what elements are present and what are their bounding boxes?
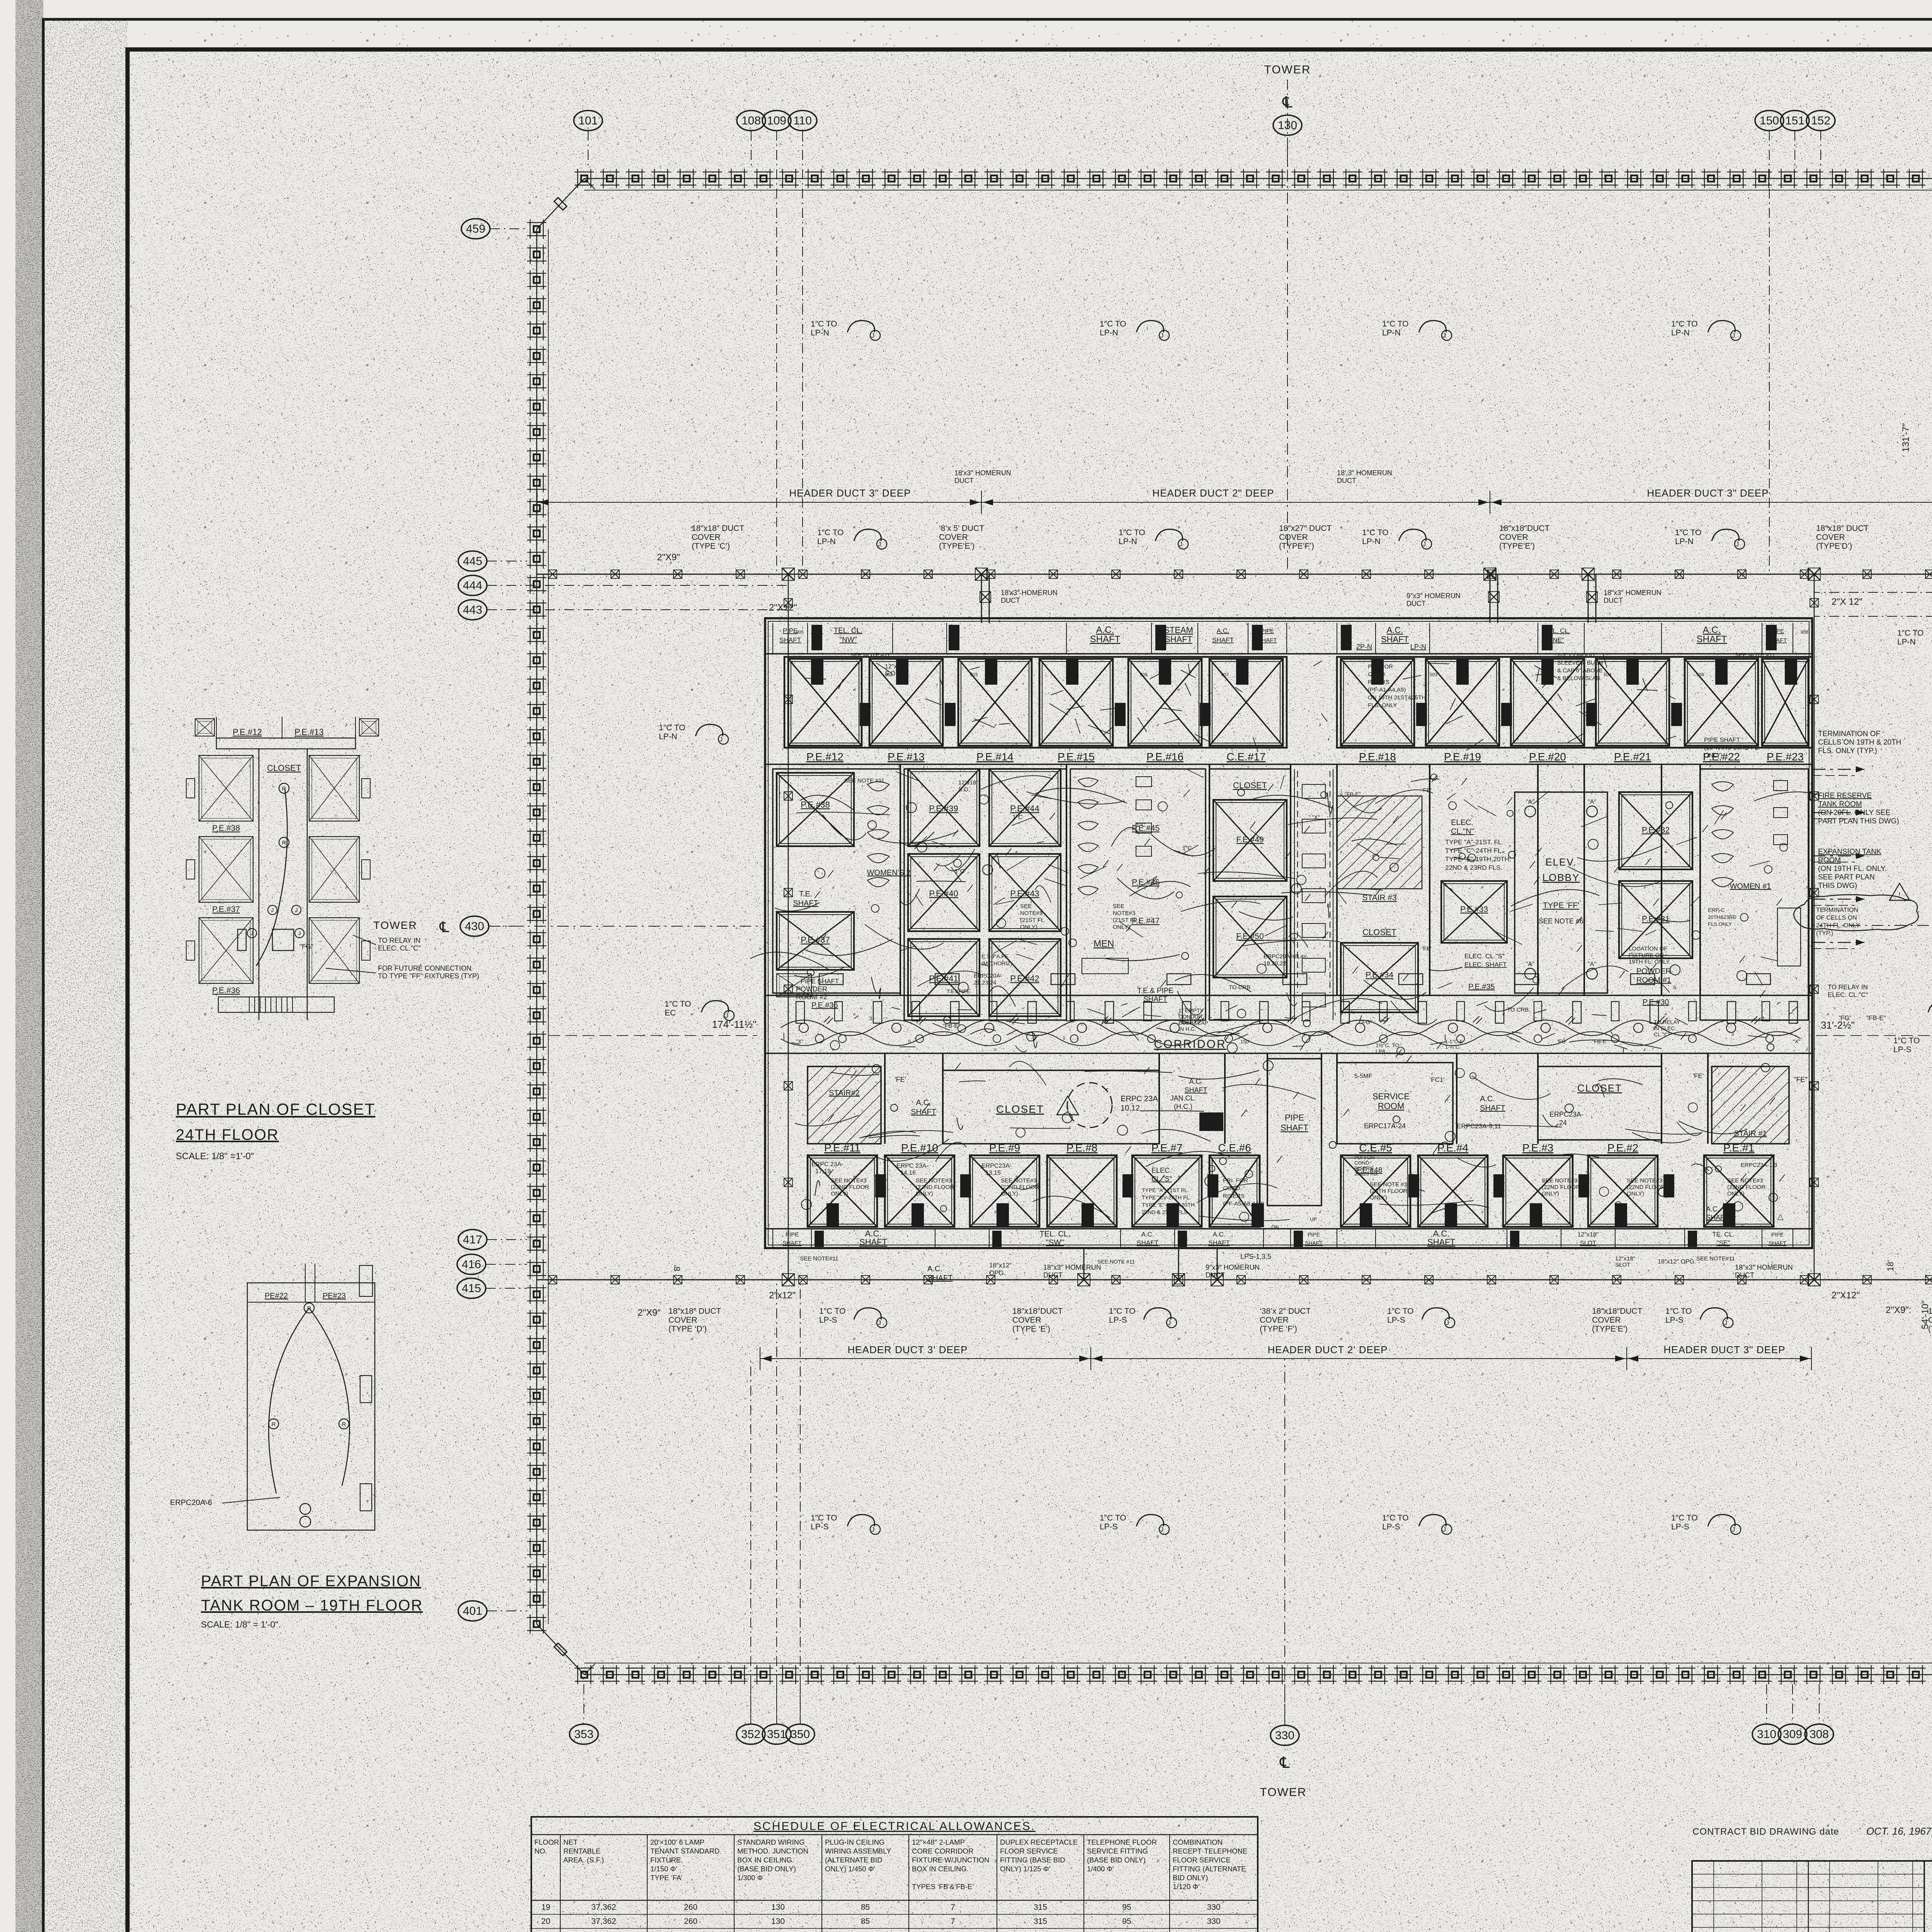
svg-text:P.E.#39: P.E.#39 (929, 804, 958, 813)
svg-text:F.E.#50: F.E.#50 (1236, 932, 1264, 941)
svg-text:151: 151 (1785, 114, 1804, 127)
corridor conduit runs (781, 1020, 1801, 1036)
svg-text:SLOT: SLOT (1580, 1240, 1596, 1247)
svg-text:310: 310 (1757, 1728, 1776, 1741)
svg-text:FLS. ONLY (TYP.): FLS. ONLY (TYP.) (1818, 747, 1877, 755)
svg-text:SEE NOTE#3: SEE NOTE#3 (1001, 1177, 1037, 1184)
svg-text:37,362: 37,362 (591, 1903, 616, 1912)
extra door bucks row1 (811, 659, 823, 684)
grid bubble 443 (458, 600, 487, 620)
svg-text:T.E.: T.E. (799, 890, 812, 898)
building perimeter walls (584, 178, 1932, 179)
svg-text:P.E.#7: P.E.#7 (1151, 1142, 1182, 1154)
svg-text:RENTABLE: RENTABLE (563, 1847, 600, 1855)
svg-text:PIPE: PIPE (1261, 628, 1274, 634)
extra arcs layer2 (959, 1081, 986, 1082)
hooks bottom band (854, 1308, 881, 1320)
svg-text:"FG": "FG" (299, 943, 313, 950)
svg-text:FITTING (ALTERNATE: FITTING (ALTERNATE (1173, 1865, 1246, 1873)
svg-text:353: 353 (574, 1728, 594, 1741)
svg-text:BOX IN CEILING.: BOX IN CEILING. (912, 1865, 969, 1873)
elevator cell P.E.#15 (1039, 659, 1113, 746)
svg-text:131'-7″: 131'-7″ (1901, 423, 1911, 452)
svg-text:SEE NOTE#3: SEE NOTE#3 (1542, 1177, 1578, 1184)
svg-text:85: 85 (861, 1917, 870, 1926)
svg-text:(22ND FLOOR: (22ND FLOOR (1001, 1184, 1039, 1190)
svg-text:TOWER: TOWER (1264, 63, 1311, 76)
svg-text:STANDARD WIRING: STANDARD WIRING (737, 1838, 804, 1846)
svg-text:18′x3″ HOMERUN: 18′x3″ HOMERUN (1001, 589, 1058, 597)
svg-text:18″x18″ DUCT: 18″x18″ DUCT (692, 524, 744, 533)
svg-text:P.E.#14: P.E.#14 (976, 751, 1014, 763)
svg-text:101: 101 (578, 114, 598, 127)
center slot dashed lines (1297, 771, 1298, 993)
svg-text:HEADER DUCT 2" DEEP: HEADER DUCT 2" DEEP (1152, 487, 1274, 499)
elevator cell P.E.#10 (885, 1155, 954, 1227)
svg-text:18″x12″ OPG.: 18″x12″ OPG. (1658, 1259, 1696, 1265)
svg-text:19: 19 (541, 1903, 550, 1912)
cell P.E.#41 (908, 939, 980, 1016)
svg-text:150′: 150′ (1240, 1039, 1250, 1044)
svg-text:1″C TO: 1″C TO (811, 320, 837, 328)
svg-text:(20TH FLOOR: (20TH FLOOR (1370, 1188, 1408, 1194)
svg-text:TO RELAY IN: TO RELAY IN (1828, 983, 1868, 991)
svg-text:J: J (298, 930, 301, 936)
svg-text:OPG.: OPG. (989, 1269, 1006, 1277)
svg-text:TYPE "C"-24TH FL.: TYPE "C"-24TH FL. (1445, 847, 1503, 854)
svg-text:ELEV.: ELEV. (1545, 856, 1577, 868)
svg-text:DUCT: DUCT (1001, 597, 1020, 604)
svg-text:330: 330 (1207, 1917, 1220, 1926)
svg-text:HEADER DUCT 2' DEEP: HEADER DUCT 2' DEEP (1268, 1344, 1388, 1355)
svg-text:22ND & 23RD FLS.: 22ND & 23RD FLS. (1142, 1209, 1189, 1215)
svg-text:P.E.#36: P.E.#36 (212, 986, 240, 995)
svg-text:BOX IN CEILING.: BOX IN CEILING. (737, 1856, 794, 1864)
svg-text:LP-S: LP-S (1671, 1522, 1689, 1531)
svg-text:(TYPE’E’): (TYPE’E’) (1499, 542, 1535, 551)
svg-text:CONDUIT: CONDUIT (1179, 1014, 1203, 1020)
elevator cell P.E.#16 (1128, 659, 1202, 746)
svg-text:OF CELLS ON: OF CELLS ON (1816, 915, 1857, 921)
svg-text:TELEPHONE FLOOR: TELEPHONE FLOOR (1087, 1838, 1157, 1846)
svg-text:A.C.: A.C. (1141, 1231, 1154, 1238)
svg-text:430: 430 (465, 920, 484, 933)
svg-text:COMBINATION: COMBINATION (1173, 1838, 1223, 1846)
svg-text:CELLS ON 19TH & 20TH: CELLS ON 19TH & 20TH (1818, 738, 1901, 747)
svg-text:℄: ℄ (439, 919, 449, 935)
svg-text:PIPE: PIPE (783, 627, 798, 634)
elevator cell C.E.#6 (1209, 1155, 1260, 1227)
svg-text:‘38’x 2″ DUCT: ‘38’x 2″ DUCT (1260, 1307, 1311, 1316)
grid bubble 350 (786, 1724, 815, 1744)
elevator cell P.E.#14 (958, 659, 1032, 746)
svg-text:ELEC.: ELEC. (1451, 818, 1473, 827)
svg-text:2"X12": 2"X12" (769, 602, 797, 613)
svg-text:1″C TO: 1″C TO (659, 723, 685, 732)
svg-text:SEE: SEE (1113, 903, 1124, 910)
schedule of electrical allowances table (531, 1817, 1258, 1932)
svg-text:ONLY): ONLY) (1704, 752, 1723, 759)
svg-text:P.E.#38: P.E.#38 (212, 824, 240, 833)
svg-text:3: 3 (1731, 1031, 1734, 1037)
hooks sides (696, 724, 723, 736)
svg-text:1½"C. TO: 1½"C. TO (1376, 1042, 1399, 1048)
svg-text:J: J (271, 907, 274, 913)
svg-text:P.E.#9: P.E.#9 (989, 1142, 1020, 1154)
svg-text:(TYPE’C’): (TYPE’C’) (1928, 1325, 1932, 1333)
termination dashed cell lines (1812, 769, 1864, 770)
svg-text:SHAFT: SHAFT (1165, 634, 1192, 644)
grid bubble 445 (458, 551, 487, 571)
svg-text:ROOM: ROOM (1818, 856, 1841, 864)
svg-text:CL."N": CL."N" (1451, 827, 1474, 836)
svg-text:J: J (1160, 332, 1164, 339)
svg-text:DUCT: DUCT (954, 477, 974, 485)
svg-text:1″C TO: 1″C TO (1897, 629, 1924, 638)
svg-text:P.E.#1: P.E.#1 (1723, 1142, 1754, 1154)
svg-text:ROOM #1: ROOM #1 (1636, 976, 1671, 985)
svg-text:TENANT STANDARD: TENANT STANDARD (650, 1847, 719, 1855)
svg-text:CLOSET: CLOSET (1362, 927, 1396, 937)
svg-text:PART PLAN THIS DWG): PART PLAN THIS DWG) (1818, 817, 1899, 825)
svg-text:LP-S: LP-S (1382, 1522, 1400, 1531)
core bottom shaft strip (765, 1228, 1812, 1230)
svg-text:ERPC20A: ERPC20A (1264, 953, 1290, 960)
svg-text:J: J (1724, 1319, 1728, 1327)
svg-text:308: 308 (1810, 1728, 1829, 1741)
svg-text:(22ND FLOOR: (22ND FLOOR (1542, 1184, 1580, 1190)
svg-text:CLOSET: CLOSET (1233, 781, 1267, 790)
svg-text:℄: ℄ (1282, 94, 1293, 111)
big closet room (943, 1070, 1159, 1144)
svg-text:SEE NOTE#3: SEE NOTE#3 (916, 1177, 952, 1184)
elevator cell P.E.#13 (869, 659, 943, 746)
elevator cell P.E.#8 (1047, 1155, 1117, 1227)
header duct dimension line top (537, 502, 981, 503)
svg-text:SHAFT: SHAFT (782, 1240, 801, 1247)
svg-text:FLOOR SERVICE: FLOOR SERVICE (1000, 1847, 1058, 1855)
svg-text:DUCT: DUCT (1406, 600, 1426, 607)
svg-text:J: J (1443, 1526, 1446, 1533)
cell P.E.#44 (989, 769, 1061, 846)
header duct line top (537, 574, 1932, 575)
part plan of closet 24th floor (216, 738, 355, 749)
stair 1 (1712, 1066, 1789, 1144)
svg-text:18″x18″DUCT: 18″x18″DUCT (1499, 524, 1550, 533)
svg-text:SEE NOTE #3: SEE NOTE #3 (1370, 1181, 1407, 1188)
svg-text:(21ST FL: (21ST FL (1113, 917, 1137, 923)
svg-text:EXPANSION TANK: EXPANSION TANK (1818, 848, 1881, 856)
svg-text:TANK ROOM – 19TH FLOOR: TANK ROOM – 19TH FLOOR (201, 1597, 423, 1614)
svg-text:SLOT: SLOT (1615, 1262, 1630, 1268)
elevator cell P.E.#23 (1762, 659, 1808, 746)
svg-text:504: 504 (1604, 672, 1611, 677)
svg-text:1: 1 (1762, 1015, 1765, 1021)
svg-text:12″x18″: 12″x18″ (1615, 1255, 1635, 1262)
svg-text:1/300 Φ: 1/300 Φ (737, 1874, 763, 1882)
svg-text:FLS.ONLY: FLS.ONLY (1708, 921, 1732, 927)
svg-text:CL."C": CL."C" (1654, 1031, 1670, 1037)
grid bubble 108 (737, 111, 765, 131)
svg-text:P.E.#8: P.E.#8 (1066, 1142, 1097, 1154)
svg-text:ELEC. SHAFT: ELEC. SHAFT (1464, 961, 1507, 968)
svg-text:SHAFT: SHAFT (927, 1274, 953, 1282)
svg-text:330: 330 (1275, 1729, 1294, 1742)
svg-text:PIPE SHAFT: PIPE SHAFT (801, 978, 839, 985)
svg-text:LP-S: LP-S (1893, 1045, 1912, 1054)
svg-text:SHAFT: SHAFT (911, 1108, 936, 1116)
svg-text:P.E.#19: P.E.#19 (1444, 751, 1481, 763)
elevator cell P.E.#20 (1511, 659, 1584, 746)
svg-text:FLOOR SERVICE: FLOOR SERVICE (1173, 1856, 1231, 1864)
svg-text:351: 351 (767, 1728, 786, 1741)
svg-text:508: 508 (1696, 672, 1704, 677)
perimeter columns bottom row (575, 1665, 1932, 1684)
svg-text:ONLY) 1/125 Φ′: ONLY) 1/125 Φ′ (1000, 1865, 1051, 1873)
svg-text:ERPC23A-: ERPC23A- (981, 1163, 1012, 1169)
svg-text:CORE CORRIDOR: CORE CORRIDOR (912, 1847, 973, 1855)
svg-text:DUCT: DUCT (1604, 597, 1623, 604)
svg-text:FLOOR: FLOOR (534, 1838, 559, 1846)
svg-text:13,15: 13,15 (985, 1170, 1001, 1176)
svg-text:SHAFT: SHAFT (1090, 634, 1121, 645)
svg-text:NO.: NO. (534, 1847, 547, 1855)
svg-text:21,23,24: 21,23,24 (974, 980, 996, 986)
svg-text:PIPE: PIPE (786, 1231, 799, 1238)
svg-text:COVER: COVER (1279, 533, 1308, 542)
svg-text:903: 903 (970, 672, 978, 677)
svg-text:9″x3″ HOMERUN: 9″x3″ HOMERUN (1206, 1264, 1260, 1271)
svg-text:18″x3″ HOMERUN: 18″x3″ HOMERUN (1604, 589, 1662, 597)
svg-text:LPS-1,3,5: LPS-1,3,5 (1240, 1253, 1271, 1260)
svg-text:TOWER: TOWER (1260, 1786, 1306, 1799)
svg-text:S: S (1673, 985, 1677, 990)
svg-text:2P-N: 2P-N (1356, 643, 1372, 651)
svg-text:7: 7 (951, 1917, 955, 1926)
svg-text:LP-N: LP-N (817, 537, 836, 546)
svg-text:SCALE: 1/8" = 1′-0".: SCALE: 1/8" = 1′-0". (201, 1619, 281, 1629)
svg-text:PART PLAN OF CLOSET: PART PLAN OF CLOSET (176, 1100, 375, 1118)
svg-text:STAIR #1: STAIR #1 (1734, 1129, 1767, 1138)
svg-text:1″C TO: 1″C TO (1665, 1307, 1692, 1316)
svg-text:P.E.#10: P.E.#10 (901, 1142, 938, 1154)
svg-text:P.E.#23: P.E.#23 (1767, 751, 1804, 763)
svg-text:18': 18' (1886, 1260, 1895, 1271)
svg-text:COND.: COND. (1223, 1185, 1242, 1192)
svg-text:ONLY): ONLY) (916, 1190, 933, 1197)
svg-text:FIXTURE.: FIXTURE. (650, 1856, 683, 1864)
svg-text:1″C TO: 1″C TO (1119, 528, 1145, 537)
svg-text:WOMEN #1: WOMEN #1 (1730, 882, 1771, 891)
svg-text:SHAFT: SHAFT (1769, 1240, 1786, 1246)
core top shaft strip (765, 653, 1812, 655)
svg-text:TYPE "CV-24TH FL.: TYPE "CV-24TH FL. (1142, 1194, 1191, 1201)
svg-text:18″x3″ HOMERUN: 18″x3″ HOMERUN (1735, 1264, 1793, 1271)
svg-text:T.E.& PIPE: T.E.& PIPE (1137, 987, 1173, 995)
svg-text:ON: ON (1271, 1224, 1279, 1230)
womens 2 fixtures (867, 782, 889, 791)
svg-text:19TH FL. ONLY.: 19TH FL. ONLY. (1629, 959, 1671, 965)
svg-text:"FB-E": "FB-E" (1866, 1014, 1886, 1022)
svg-text:1″C TO: 1″C TO (1109, 1307, 1136, 1316)
svg-text:1″C TO: 1″C TO (1675, 528, 1702, 537)
grid bubble 444 (458, 575, 487, 595)
svg-text:1-¾"C.: 1-¾"C. (1445, 1044, 1461, 1050)
svg-text:1″C TO: 1″C TO (1893, 1036, 1920, 1045)
perimeter columns left row (527, 219, 546, 1634)
svg-text:PLUG-IN CEILING: PLUG-IN CEILING (825, 1838, 884, 1846)
svg-text:COVER: COVER (1012, 1316, 1041, 1325)
center service slot (1294, 769, 1295, 1020)
grid bubble 352 (736, 1724, 765, 1744)
svg-text:ERP-C: ERP-C (1708, 907, 1725, 913)
svg-text:J: J (878, 1319, 881, 1327)
svg-text:ERPC20A-6: ERPC20A-6 (170, 1498, 212, 1507)
svg-text:260: 260 (684, 1917, 697, 1926)
svg-text:LP-N: LP-N (1671, 328, 1690, 337)
svg-text:85: 85 (861, 1903, 870, 1912)
svg-text:RELAY: RELAY (1291, 954, 1307, 959)
svg-text:315: 315 (1034, 1903, 1047, 1912)
svg-text:TEL. CL.: TEL. CL. (1040, 1230, 1070, 1238)
svg-text:ONLY): ONLY) (1020, 924, 1037, 930)
svg-text:1″C TO: 1″C TO (1100, 320, 1126, 328)
svg-text:P.E.#12: P.E.#12 (806, 751, 844, 763)
svg-text:"FE": "FE" (1794, 1076, 1808, 1083)
svg-text:ELEC. CL."C": ELEC. CL."C" (378, 944, 421, 952)
elevator cell P.E.#9 (970, 1155, 1039, 1227)
pipe shaft center (1267, 1059, 1321, 1206)
svg-text:(BASE BID ONLY): (BASE BID ONLY) (1087, 1856, 1146, 1864)
svg-text:20TH&23RD: 20TH&23RD (1708, 914, 1736, 920)
svg-text:18″x3″ HOMERUN: 18″x3″ HOMERUN (1043, 1264, 1101, 1271)
elevator cell P.E.#18 (1341, 659, 1414, 746)
svg-text:8': 8' (672, 1265, 682, 1271)
svg-text:(22ND FLOOR: (22ND FLOOR (1727, 1184, 1765, 1190)
svg-text:COVER: COVER (939, 533, 968, 542)
svg-text:ONLY): ONLY) (1542, 1190, 1559, 1197)
chamfered corners with rotated corner columns (537, 179, 584, 229)
svg-text:350: 350 (791, 1728, 810, 1741)
svg-text:A.C.: A.C. (1703, 625, 1721, 635)
svg-text:LP-N: LP-N (1362, 537, 1381, 546)
svg-text:NOTE#3: NOTE#3 (1113, 910, 1135, 917)
svg-text:ON 19TH 21ST&25TH: ON 19TH 21ST&25TH (1368, 694, 1426, 701)
svg-text:TYPE "A"-21ST. FL.: TYPE "A"-21ST. FL. (1445, 838, 1503, 846)
svg-text:SEE NOTE#3: SEE NOTE#3 (1727, 1177, 1763, 1184)
svg-text:& BELOW SLAB.: & BELOW SLAB. (1557, 675, 1602, 682)
svg-text:LP-N: LP-N (1382, 328, 1401, 337)
svg-text:95: 95 (1122, 1903, 1131, 1912)
svg-text:J: J (1168, 1319, 1171, 1327)
svg-text:FIXTURE W/JUNCTION: FIXTURE W/JUNCTION (912, 1856, 989, 1864)
svg-text:ERPC 23A: ERPC 23A (1121, 1095, 1158, 1103)
svg-text:ELEC.: ELEC. (1151, 1167, 1172, 1174)
svg-text:FIXTURE ON: FIXTURE ON (1629, 952, 1664, 959)
svg-text:1″C TO: 1″C TO (811, 1514, 837, 1522)
svg-text:P.E.#37: P.E.#37 (212, 905, 240, 914)
grid bubble 152 (1806, 111, 1835, 131)
svg-text:1″C TO: 1″C TO (1387, 1307, 1414, 1316)
svg-text:SHAFT: SHAFT (1697, 634, 1727, 645)
grid bubble 150 (1755, 111, 1784, 131)
closet block (1209, 769, 1291, 1020)
svg-text:174′-11½": 174′-11½" (712, 1019, 757, 1030)
svg-text:TO RELAY IN: TO RELAY IN (378, 937, 420, 944)
svg-text:△: △ (1777, 1213, 1784, 1221)
svg-text:HEADER DUCT 3' DEEP: HEADER DUCT 3' DEEP (848, 1344, 968, 1355)
misc conduit arcs in core (1111, 828, 1139, 846)
svg-text:A.C.: A.C. (1387, 625, 1403, 635)
grid bubble 308 (1805, 1724, 1833, 1744)
svg-text:(H.C.): (H.C.) (1174, 1103, 1192, 1111)
svg-text:A.C.: A.C. (1213, 1231, 1225, 1238)
scan margin textures (15, 0, 43, 1932)
svg-text:1-1″C.&: 1-1″C.& (1445, 1039, 1463, 1044)
svg-text:"A": "A" (1588, 961, 1596, 968)
svg-text:J: J (1732, 332, 1735, 339)
svg-text:SEE NOTE#3: SEE NOTE#3 (1627, 1177, 1663, 1184)
svg-text:'FG': 'FG' (1557, 1038, 1567, 1044)
svg-text:P.E.#13: P.E.#13 (294, 727, 323, 737)
svg-text:SHAFT: SHAFT (1281, 1123, 1308, 1133)
svg-text:(ALTERNATE BID: (ALTERNATE BID (825, 1856, 882, 1864)
svg-text:LP-N: LP-N (1119, 537, 1137, 546)
svg-text:"NW": "NW" (839, 636, 857, 644)
svg-text:417: 417 (463, 1233, 482, 1246)
svg-text:R: R (307, 1305, 311, 1312)
core mid band rooms (773, 769, 900, 993)
svg-text:J: J (295, 907, 298, 913)
svg-text:907: 907 (1221, 672, 1229, 677)
svg-text:NET: NET (563, 1838, 578, 1846)
svg-text:NOTE#3: NOTE#3 (1020, 910, 1043, 917)
svg-text:COVER: COVER (692, 533, 721, 542)
svg-text:2"X 12": 2"X 12" (1832, 597, 1862, 607)
extra junction rects corridor (835, 1002, 842, 1021)
core outline (765, 618, 1812, 1248)
svg-text:18″x12″: 18″x12″ (989, 1262, 1012, 1269)
svg-text:SHAFT: SHAFT (1480, 1104, 1505, 1112)
svg-text:COVER: COVER (1592, 1316, 1621, 1325)
svg-text:CLOSET: CLOSET (996, 1103, 1044, 1115)
svg-text:TE. CL.: TE. CL. (1712, 1231, 1735, 1238)
svg-text:18′x3″ HOMERUN: 18′x3″ HOMERUN (954, 469, 1011, 477)
svg-text:THIS DWG): THIS DWG) (1818, 882, 1857, 890)
svg-text:'FE': 'FE' (895, 1076, 906, 1083)
svg-text:14,16: 14,16 (900, 1170, 916, 1176)
grid bubble 110 (788, 111, 817, 131)
lower band partitions (884, 1053, 886, 1144)
svg-text:P.E.#2: P.E.#2 (1607, 1142, 1638, 1154)
svg-text:P.E.#34: P.E.#34 (1366, 971, 1393, 980)
svg-text:'FE': 'FE' (1422, 946, 1432, 952)
header duct dimension line bottom (760, 1358, 1091, 1359)
svg-text:P.E.#20: P.E.#20 (1529, 751, 1566, 763)
svg-text:SHAFT: SHAFT (1143, 995, 1168, 1003)
svg-text:C.E.#6: C.E.#6 (1218, 1142, 1251, 1154)
svg-text:COVER: COVER (1499, 533, 1528, 542)
svg-text:2"X9": 2"X9" (657, 552, 680, 563)
svg-text:18″x18″ DUCT: 18″x18″ DUCT (668, 1307, 721, 1316)
svg-text:352: 352 (741, 1728, 760, 1741)
svg-text:PIPE SHAFT: PIPE SHAFT (1704, 737, 1740, 743)
svg-text:A.C.: A.C. (1216, 627, 1229, 634)
vertical duct risers (788, 574, 789, 1280)
elevator cell P.E.#11 (808, 1155, 877, 1227)
svg-text:JAN.CL.: JAN.CL. (1170, 1094, 1196, 1102)
svg-text:ELEC. CL."C": ELEC. CL."C" (1828, 991, 1868, 998)
